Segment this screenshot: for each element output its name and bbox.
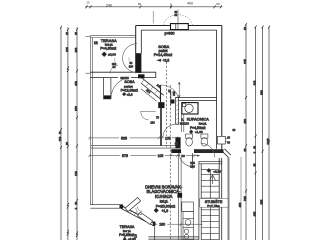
terrace south wall / SOBA2 north wall	[90, 71, 156, 73]
top window center line	[177, 10, 179, 30]
svg-text:180: 180	[159, 223, 165, 227]
svg-text:435: 435	[253, 211, 257, 216]
door size labels terrace1	[114, 58, 116, 63]
right dimension lines	[246, 24, 269, 240]
svg-text:80/210: 80/210	[180, 122, 190, 126]
svg-text:230: 230	[129, 64, 134, 68]
terrace west wall	[89, 36, 91, 205]
top dimension chain	[85, 0, 222, 8]
room label TERASA2	[119, 225, 137, 240]
stair bay east wall	[219, 157, 228, 240]
terrace2 small arcs	[136, 207, 142, 215]
svg-text:240: 240	[106, 3, 112, 7]
stair west wall	[199, 161, 201, 240]
interior dim chain 2 (y155.6)	[89, 154, 200, 157]
building outer walls	[136, 24, 222, 153]
svg-text:P=7,75m: P=7,75m	[207, 204, 220, 208]
diagonal wall black foot	[158, 102, 164, 108]
terrace1 small arc	[110, 66, 118, 74]
east wall outer	[221, 26, 223, 153]
room label STUBISTE	[200, 199, 228, 208]
svg-text:p=930: p=930	[164, 32, 174, 36]
svg-text:ket.pl.: ket.pl.	[160, 200, 169, 204]
diagonal wall lines	[141, 77, 164, 101]
svg-text:+2,8: +2,8	[126, 93, 132, 97]
svg-text:+1,80: +1,80	[195, 130, 203, 134]
interior wall SOBA2/DNEVNI	[91, 145, 180, 148]
room label TERASA1	[94, 38, 117, 56]
left dimension lines	[61, 27, 77, 240]
svg-text:450: 450	[238, 202, 242, 207]
wall junction black piece	[138, 74, 145, 78]
door label soba2	[118, 76, 131, 79]
bathroom west door jamb black	[175, 137, 180, 148]
svg-text:90: 90	[181, 154, 185, 158]
svg-text:60: 60	[138, 2, 142, 6]
wall below diagonal foot	[160, 106, 162, 146]
stair elevation +3.80	[207, 169, 211, 173]
east wall inner	[216, 30, 218, 149]
top window dashed swing arcs	[164, 15, 193, 26]
svg-text:375: 375	[243, 59, 247, 64]
svg-text:105: 105	[165, 136, 171, 140]
terrace2 south stub wall	[90, 205, 122, 209]
SOBA1 door jamb leaf	[160, 85, 162, 103]
svg-text:1k: 1k	[94, 41, 98, 45]
svg-text:90: 90	[175, 142, 179, 146]
terrace2 diagonal wall	[119, 205, 154, 226]
interior dim chain 1 (y138)	[89, 136, 181, 139]
bathroom west wall hatch	[176, 99, 179, 124]
top wall outer line	[136, 25, 222, 27]
room label SOBA1	[154, 44, 172, 62]
kitchen counter units	[182, 202, 194, 240]
stair up arrow	[210, 175, 216, 184]
bathroom south wall right piece	[194, 149, 224, 153]
east wall protrusion box	[218, 136, 230, 144]
bathroom west door swing arc	[163, 124, 176, 137]
svg-text:438: 438	[74, 81, 78, 86]
stair treads	[201, 170, 219, 240]
svg-text:2,8: 2,8	[134, 234, 137, 238]
hall small arc cluster	[140, 112, 156, 120]
east bay jog	[222, 149, 231, 158]
svg-text:60: 60	[243, 27, 247, 30]
extension stubs	[86, 36, 91, 38]
top wall inner line	[141, 29, 216, 31]
bathroom north wall	[176, 98, 217, 101]
svg-text:240: 240	[74, 171, 78, 176]
SOBA1 door second jamb	[170, 91, 172, 105]
terrace2 wall end cap	[153, 222, 156, 227]
SOBA2 door stub wall	[104, 78, 111, 100]
svg-text:210: 210	[190, 164, 195, 168]
svg-text:105: 105	[158, 154, 164, 158]
west wall of room SOBA1 inner	[140, 30, 142, 53]
pipe chase lines	[181, 115, 184, 133]
svg-text:60: 60	[216, 2, 220, 6]
svg-text:+1,8: +1,8	[161, 209, 168, 213]
svg-text:+3,80: +3,80	[213, 169, 221, 173]
room label KUPAONICA	[180, 117, 210, 134]
svg-text:460: 460	[243, 119, 247, 124]
svg-text:575: 575	[122, 154, 128, 158]
stair north wall	[199, 161, 222, 164]
stair flight divider	[209, 170, 211, 240]
svg-text:413: 413	[253, 80, 257, 85]
svg-text:383: 383	[74, 106, 78, 111]
svg-text:893: 893	[260, 90, 264, 95]
SOBA1 door swing arc	[161, 85, 179, 101]
stair dim line 450	[240, 157, 242, 240]
svg-text:525: 525	[243, 196, 247, 201]
terrace2 door leaf 1	[125, 198, 141, 212]
SOBA2 door swing arc	[111, 77, 132, 99]
bathroom west wall upper	[176, 98, 179, 125]
chimney box in top wall	[171, 24, 189, 30]
black column	[177, 193, 182, 198]
terrace2 door leaf 2	[138, 212, 153, 224]
room label SOBA2	[121, 80, 139, 97]
bathroom south wall black left piece	[171, 149, 181, 153]
bathroom south door swing arc	[179, 153, 192, 166]
terrace north wall	[90, 35, 135, 37]
right dim ticks and labels	[245, 23, 270, 193]
terrace 1 (top-left) walls	[86, 36, 156, 205]
svg-text:KUHINJA: KUHINJA	[155, 194, 173, 199]
west wall of room SOBA1 outer	[135, 26, 137, 74]
door height leader 210	[178, 82, 180, 98]
toilet	[186, 134, 193, 146]
svg-text:±0,00: ±0,00	[108, 52, 116, 56]
kitchen back wall	[178, 153, 181, 240]
terrace2 east edge line	[154, 224, 156, 240]
window extension line	[152, 11, 154, 24]
room label DNEVNI	[145, 184, 183, 213]
svg-text:SOBA: SOBA	[124, 80, 135, 84]
dashed overhead lines	[167, 62, 171, 240]
svg-text:P=25,90m2: P=25,90m2	[156, 205, 176, 209]
bidet	[201, 134, 208, 146]
svg-text:400: 400	[187, 2, 193, 6]
washing machine	[182, 103, 198, 114]
kitchen dim chain (y224)	[154, 223, 203, 226]
west wall black door jamb	[136, 53, 142, 73]
svg-text:130: 130	[58, 136, 62, 141]
left dim ticks and labels	[60, 26, 78, 237]
bottom wall lines	[148, 237, 199, 239]
svg-text:220: 220	[65, 47, 69, 52]
landing door swing arc	[201, 143, 215, 157]
svg-text:P=14,45m2: P=14,45m2	[154, 53, 172, 57]
svg-text:90/210: 90/210	[120, 76, 129, 80]
svg-text:209: 209	[74, 47, 78, 52]
svg-text:210: 210	[172, 91, 176, 96]
svg-text:1248: 1248	[266, 138, 270, 145]
terrace1 door half-swing arc	[123, 44, 137, 73]
svg-text:555: 555	[260, 199, 264, 204]
svg-text:+2,8: +2,8	[163, 58, 170, 62]
svg-text:565: 565	[121, 137, 127, 141]
svg-text:P=4,80m2: P=4,80m2	[100, 47, 116, 51]
svg-text:210: 210	[150, 121, 155, 125]
